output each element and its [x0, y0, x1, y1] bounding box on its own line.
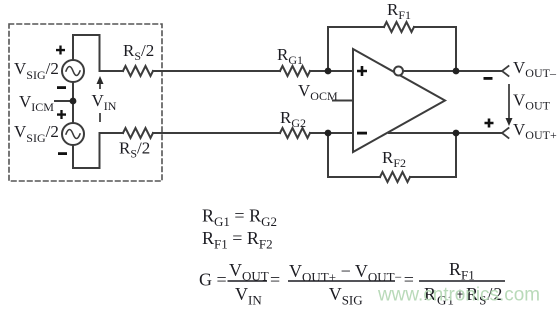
fraction bar 2 — [288, 280, 395, 282]
wire source2 bottom to lower rail — [73, 133, 123, 168]
svg-text:=: = — [270, 270, 280, 290]
svg-text:RG1 = RG2: RG1 = RG2 — [202, 206, 277, 230]
svg-text:VIN: VIN — [92, 91, 117, 113]
svg-text:VSIG: VSIG — [329, 284, 363, 308]
wire lower rail to RG2 — [153, 132, 280, 134]
wire RF2 feedback loop — [328, 133, 380, 177]
svg-text:VOUT: VOUT — [513, 91, 551, 113]
svg-text:RG2: RG2 — [280, 108, 306, 130]
svg-text:RF1: RF1 — [449, 259, 475, 283]
resistor RS/2 top — [123, 66, 153, 76]
op-amp U1 triangle — [353, 49, 445, 152]
junction node VOUT+ — [453, 130, 460, 137]
svg-text:RG1: RG1 — [277, 45, 303, 67]
plus in op-amp — [357, 66, 367, 76]
wire RF1 to output node — [414, 27, 456, 71]
op-amp inverting output bubble — [394, 67, 403, 76]
wire source1 bottom to VICM node to source2 top — [72, 82, 74, 123]
junction node VOUT- — [453, 68, 460, 75]
fraction bar 3 — [419, 280, 505, 282]
svg-text:VOUT+ − VOUT−: VOUT+ − VOUT− — [289, 261, 402, 285]
wire op-amp bottom output to VOUT+ terminal — [389, 132, 502, 134]
resistor RF2 — [380, 172, 410, 182]
wire upper rail to RG1 — [153, 70, 280, 72]
svg-text:VSIG/2: VSIG/2 — [14, 59, 59, 82]
resistor RG1 — [280, 66, 310, 76]
plus at VOUT+ — [485, 119, 494, 128]
junction node VICM — [70, 98, 77, 105]
svg-text:VOUT–: VOUT– — [513, 58, 557, 80]
svg-text:VOUT+: VOUT+ — [513, 120, 557, 142]
svg-text:RF2: RF2 — [382, 148, 406, 170]
dashed source box — [9, 24, 162, 181]
svg-text:RS/2: RS/2 — [123, 41, 154, 63]
svg-text:VOUT: VOUT — [229, 260, 269, 284]
wire VOCM to op-amp — [333, 100, 353, 102]
svg-text:www.cntronics.com: www.cntronics.com — [377, 285, 540, 306]
resistor RS/2 bottom — [123, 128, 153, 138]
junction node RG1/RF1 — [325, 68, 332, 75]
resistor RF1 — [384, 22, 414, 32]
svg-text:VIN: VIN — [235, 284, 262, 308]
VIN dashed measurement arrow — [97, 76, 104, 122]
svg-text:VOCM: VOCM — [298, 81, 338, 103]
svg-text:VICM: VICM — [19, 92, 54, 114]
minus in op-amp — [357, 132, 367, 135]
svg-text:G =: G = — [199, 270, 227, 290]
voltage source VSIG/2 bottom — [62, 123, 84, 145]
terminal arrowhead VOUT- — [502, 66, 509, 76]
minus at VOUT- — [484, 77, 493, 80]
resistor RG2 — [280, 128, 310, 138]
svg-text:RF1: RF1 — [387, 0, 411, 22]
junction node RG2/RF2 — [325, 130, 332, 137]
wire RG2 to op-amp - input — [310, 132, 353, 134]
wire op-amp top output to VOUT- terminal — [403, 70, 502, 72]
plus source2 — [57, 110, 66, 119]
minus source1 — [57, 86, 66, 89]
wire top branch: source1 top to upper rail — [73, 35, 123, 71]
voltage source VSIG/2 top — [62, 60, 84, 82]
wire VICM stub — [55, 100, 73, 102]
svg-text:RS/2: RS/2 — [119, 139, 150, 161]
plus source1 — [56, 46, 65, 55]
wire RF2 to output node — [410, 133, 456, 177]
wire RF1 feedback loop — [328, 27, 384, 71]
terminal arrowhead VOUT+ — [502, 128, 509, 138]
svg-text:VSIG/2: VSIG/2 — [14, 122, 59, 145]
minus source2 — [58, 152, 67, 155]
VOUT down arrow — [506, 84, 513, 126]
svg-text:RF1 = RF2: RF1 = RF2 — [202, 228, 273, 252]
wire RG1 to op-amp + input — [310, 70, 353, 72]
polarity signs of sources and outputs — [56, 46, 494, 156]
fraction bar 1 — [228, 280, 268, 282]
